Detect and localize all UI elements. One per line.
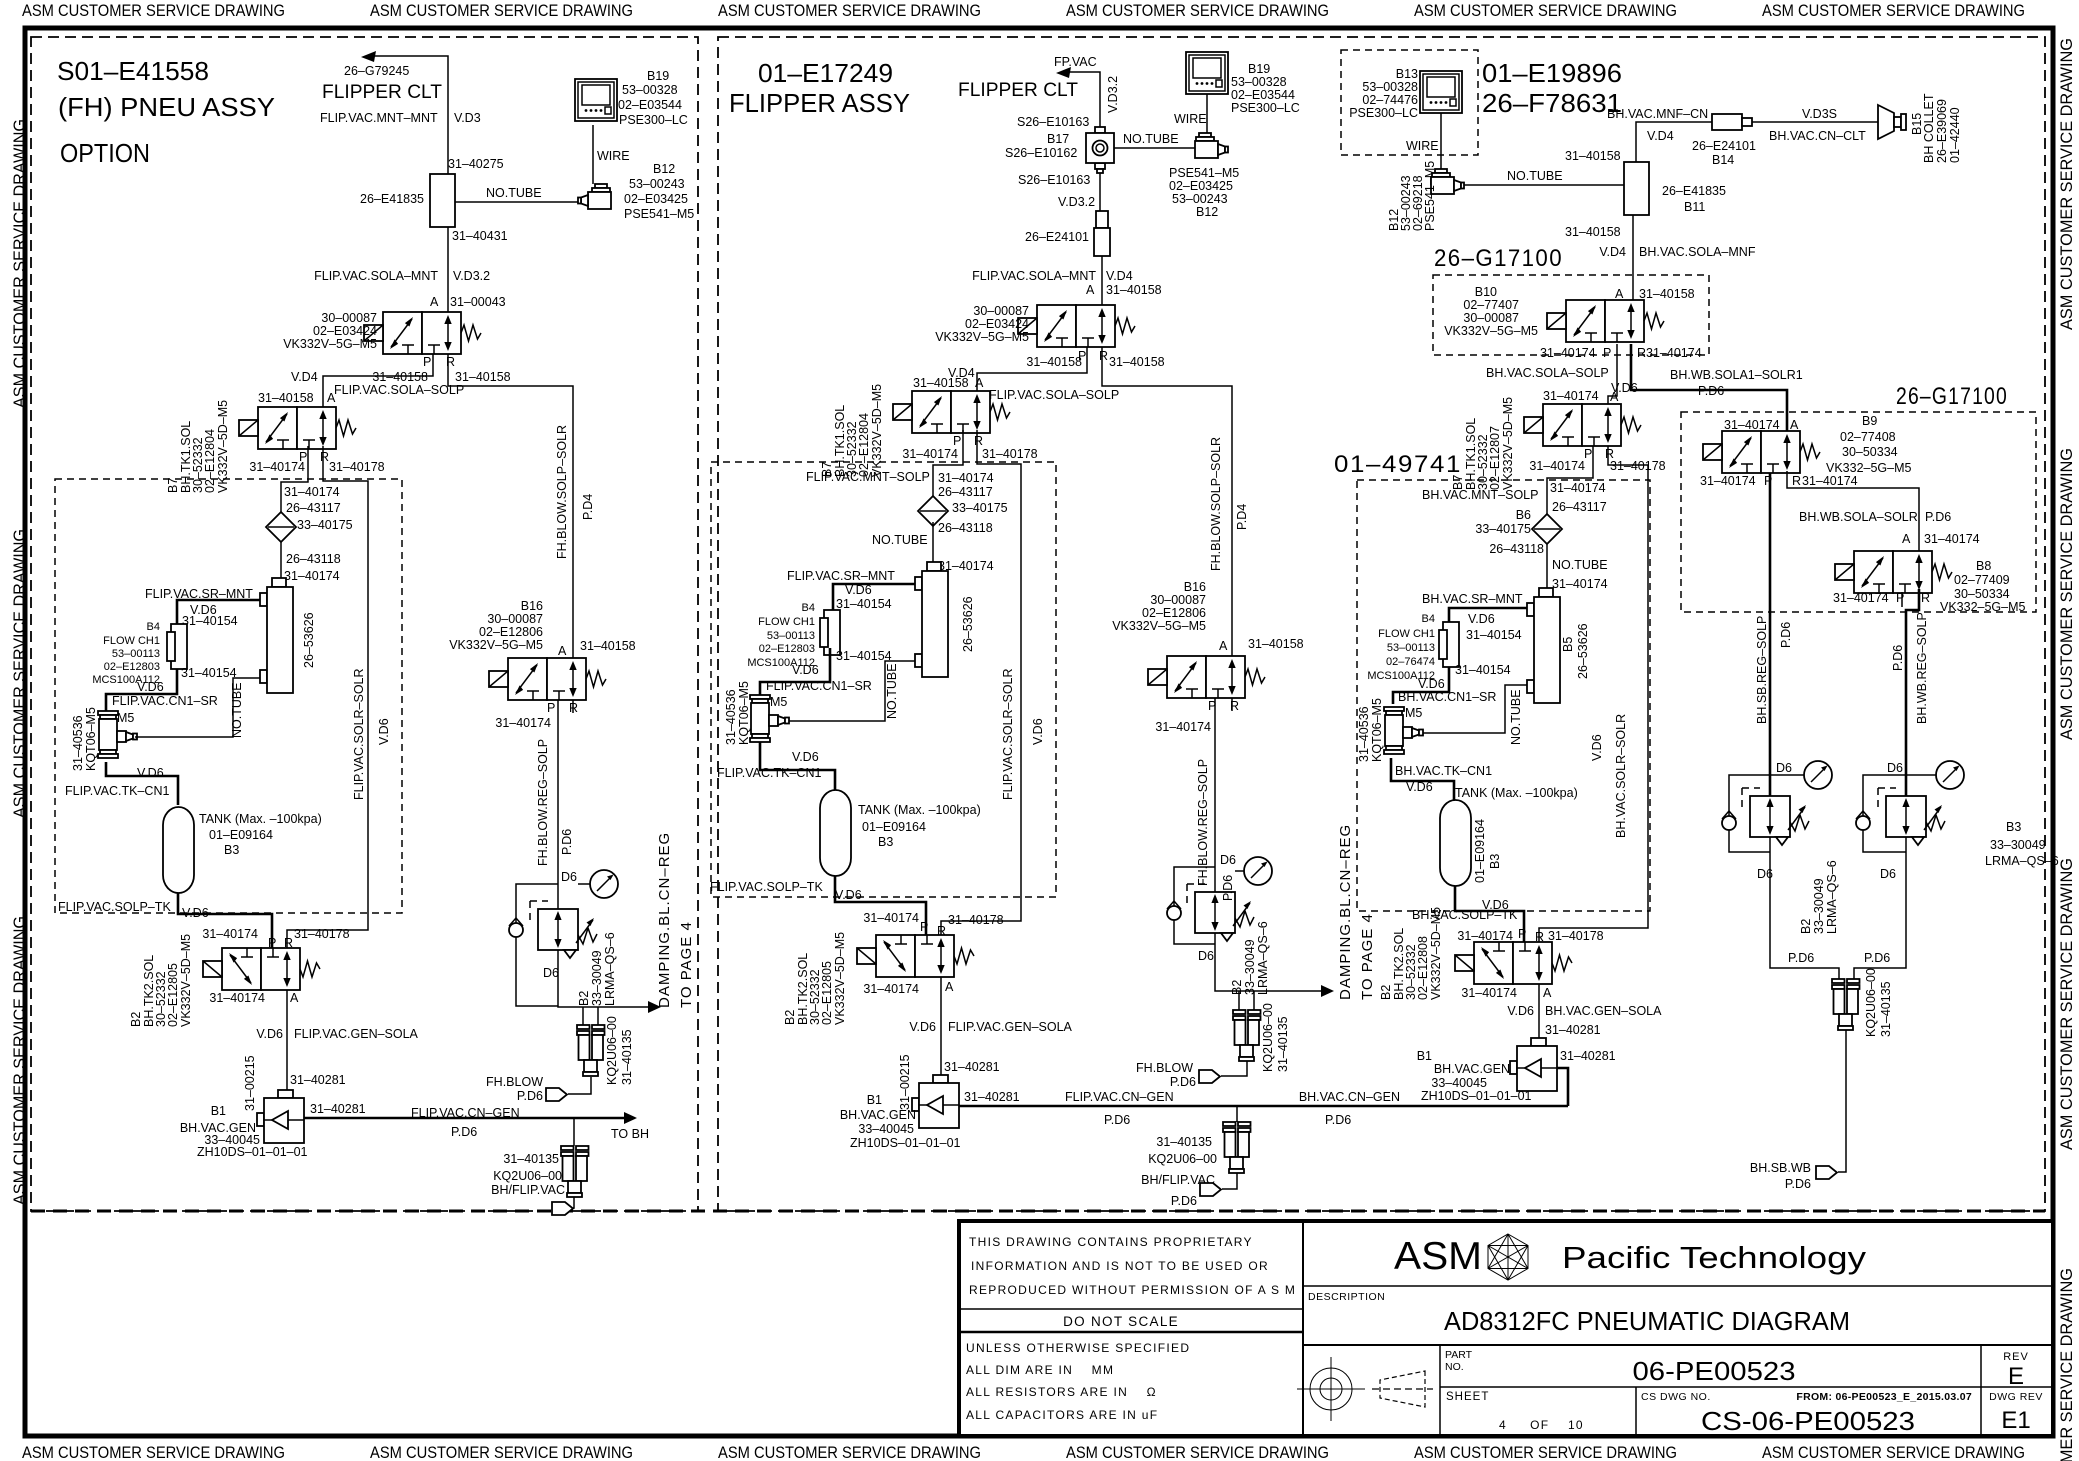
svg-text:01–E19896: 01–E19896 <box>1482 58 1622 88</box>
svg-text:V.D3S: V.D3S <box>1802 107 1837 121</box>
svg-text:V.D6: V.D6 <box>1418 677 1445 691</box>
svg-text:53–00243: 53–00243 <box>629 177 685 191</box>
svg-text:31–40158: 31–40158 <box>372 370 428 384</box>
tank B3 01-E09164 <box>820 790 851 876</box>
fitting PSE541-M5 <box>1195 133 1228 158</box>
svg-text:PSE541–M5: PSE541–M5 <box>1169 166 1239 180</box>
valve B16 30-00087 <box>489 658 606 700</box>
svg-text:P.D6: P.D6 <box>1864 951 1890 965</box>
wire B7 P to filter B6 <box>1547 446 1593 514</box>
connector flag FH.BLOW P.D6 <box>1199 1070 1220 1083</box>
svg-text:A: A <box>558 644 567 658</box>
wire regulators to fitting <box>1770 837 1839 979</box>
svg-text:CS-06-PE00523: CS-06-PE00523 <box>1701 1406 1915 1436</box>
valve B2 BH.TK2.SOL (flipped) <box>203 948 320 990</box>
svg-text:A: A <box>1086 283 1095 297</box>
svg-text:31–40154: 31–40154 <box>1466 628 1522 642</box>
svg-text:R: R <box>1230 699 1239 713</box>
svg-text:31–40536: 31–40536 <box>724 689 738 745</box>
svg-text:V.D6: V.D6 <box>835 888 862 902</box>
svg-text:TANK (Max. –100kpa): TANK (Max. –100kpa) <box>858 803 981 817</box>
dashed section box right <box>718 37 2045 1211</box>
svg-text:33–40175: 33–40175 <box>1475 522 1531 536</box>
wire manifold top to B14 <box>1636 122 1712 162</box>
svg-text:BH.VAC.GEN: BH.VAC.GEN <box>840 1108 916 1122</box>
svg-text:31–40158: 31–40158 <box>1026 355 1082 369</box>
svg-text:B16: B16 <box>1184 580 1206 594</box>
check valve <box>1167 901 1181 920</box>
svg-text:S01–E41558: S01–E41558 <box>57 56 209 86</box>
svg-text:P.D6: P.D6 <box>451 1125 477 1139</box>
wire KQT nozzle to SR lower port NO.TUBE <box>135 678 260 737</box>
svg-text:BH.VAC.SR–MNT: BH.VAC.SR–MNT <box>1422 592 1523 606</box>
svg-text:31–40174: 31–40174 <box>902 447 958 461</box>
svg-text:NO.TUBE: NO.TUBE <box>1552 558 1608 572</box>
svg-text:P.D6: P.D6 <box>1779 622 1793 648</box>
svg-text:30–50334: 30–50334 <box>1842 445 1898 459</box>
svg-text:A: A <box>1610 390 1619 404</box>
svg-text:WIRE: WIRE <box>597 149 630 163</box>
svg-text:FLIPPER ASSY: FLIPPER ASSY <box>729 88 910 118</box>
svg-text:V.D6: V.D6 <box>377 718 391 745</box>
svg-text:V.D3.2: V.D3.2 <box>1106 76 1120 113</box>
svg-text:FLIP.VAC.SOLP–TK: FLIP.VAC.SOLP–TK <box>58 900 171 914</box>
svg-text:V.D4: V.D4 <box>291 370 318 384</box>
svg-text:31–40178: 31–40178 <box>1548 929 1604 943</box>
svg-text:31–40178: 31–40178 <box>329 460 385 474</box>
wire B4 to KQT06 <box>760 648 830 695</box>
title block frame <box>959 1221 2053 1436</box>
svg-text:02–E12803: 02–E12803 <box>759 643 815 655</box>
wire KQT nozzle to SR lower port NO.TUBE <box>789 661 915 721</box>
dashed box B13 <box>1341 50 1478 155</box>
svg-text:BH.SB.REG–SOLP: BH.SB.REG–SOLP <box>1755 616 1769 724</box>
svg-text:P.D6: P.D6 <box>1325 1113 1351 1127</box>
wire fitting to flag <box>1222 1173 1237 1189</box>
svg-text:NO.TUBE: NO.TUBE <box>1509 689 1523 745</box>
svg-text:53–00328: 53–00328 <box>1231 75 1287 89</box>
svg-text:01–42440: 01–42440 <box>1948 107 1962 163</box>
svg-text:V.D4: V.D4 <box>1106 269 1133 283</box>
svg-text:BH.VAC.TK–CN1: BH.VAC.TK–CN1 <box>1395 764 1492 778</box>
svg-text:53–00243: 53–00243 <box>1172 192 1228 206</box>
wire B2 A to B1 <box>1538 984 1540 1038</box>
svg-text:FLIP.VAC.SOLR–SOLR: FLIP.VAC.SOLR–SOLR <box>352 668 366 800</box>
svg-text:31–40135: 31–40135 <box>1276 1016 1290 1072</box>
svg-text:R: R <box>1921 591 1930 605</box>
svg-text:ASM CUSTOMER SERVICE DRAWING: ASM CUSTOMER SERVICE DRAWING <box>2057 858 2076 1150</box>
valve 30-00087 VK332V-5G-M5 <box>1018 305 1135 347</box>
svg-text:V.D6: V.D6 <box>1406 780 1433 794</box>
svg-text:ASM CUSTOMER SERVICE DRAWING: ASM CUSTOMER SERVICE DRAWING <box>2057 1268 2076 1461</box>
wire fitting to FH.BLOW flag <box>1221 1061 1247 1076</box>
wire filter to SR <box>280 542 282 578</box>
svg-text:31–40178: 31–40178 <box>1610 459 1666 473</box>
svg-text:01–E09164: 01–E09164 <box>209 828 273 842</box>
svg-text:FROM: 06-PE00523_E_2015.03.07: FROM: 06-PE00523_E_2015.03.07 <box>1796 1391 1972 1403</box>
svg-text:NO.TUBE: NO.TUBE <box>872 533 928 547</box>
svg-text:THIS DRAWING CONTAINS PROPRIET: THIS DRAWING CONTAINS PROPRIETARY <box>969 1235 1253 1249</box>
svg-text:D6: D6 <box>1880 867 1896 881</box>
svg-text:BH.VAC.SOLP–TK: BH.VAC.SOLP–TK <box>1412 908 1518 922</box>
svg-text:ASM CUSTOMER SERVICE DRAWING: ASM CUSTOMER SERVICE DRAWING <box>718 1 981 20</box>
wire B19 to PSE541 <box>1206 94 1208 133</box>
wire B7 R to SOLR run down to B2 R <box>941 430 1021 935</box>
svg-text:FLIP.VAC.SOLA–MNT: FLIP.VAC.SOLA–MNT <box>314 269 438 283</box>
svg-text:31–40158: 31–40158 <box>1106 283 1162 297</box>
valve B2 BH.TK2.SOL (flipped) <box>1455 942 1572 984</box>
svg-text:01–E09164: 01–E09164 <box>1473 819 1487 883</box>
wire B19 to B12 <box>592 125 594 184</box>
svg-text:26–53626: 26–53626 <box>302 612 316 668</box>
svg-text:B12: B12 <box>1196 205 1218 219</box>
wire B10 P to B7 A <box>1608 344 1617 404</box>
svg-text:P.D6: P.D6 <box>1221 875 1235 901</box>
svg-text:V.D6: V.D6 <box>792 750 819 764</box>
tank B3 01-E09164 <box>1440 800 1471 886</box>
svg-text:FLIP.VAC.TK–CN1: FLIP.VAC.TK–CN1 <box>65 784 169 798</box>
wire B10 R to BH.WB run to B9 A <box>1631 344 1787 431</box>
svg-text:V.D6: V.D6 <box>137 680 164 694</box>
manifold 26-E41835 B11 <box>1624 162 1649 215</box>
svg-text:NO.TUBE: NO.TUBE <box>1507 169 1563 183</box>
svg-text:TANK (Max. –100kpa): TANK (Max. –100kpa) <box>199 812 322 826</box>
flow ctrl B4 MCS100A112 <box>167 624 187 669</box>
svg-text:31–40174: 31–40174 <box>1924 532 1980 546</box>
svg-text:31–40174: 31–40174 <box>284 485 340 499</box>
valve B9 <box>1703 431 1820 473</box>
wire fitting to BH.SB.WB flag <box>1838 1030 1846 1172</box>
svg-text:REV: REV <box>2003 1351 2029 1363</box>
dashed section box left <box>31 37 698 1211</box>
svg-text:26–G17100: 26–G17100 <box>1434 245 1563 272</box>
svg-text:01–E17249: 01–E17249 <box>758 58 893 88</box>
svg-text:FLIP.VAC.CN–GEN: FLIP.VAC.CN–GEN <box>411 1106 520 1120</box>
svg-text:A: A <box>327 391 336 405</box>
svg-text:01–E09164: 01–E09164 <box>862 820 926 834</box>
svg-text:FLIP.VAC.MNT–MNT: FLIP.VAC.MNT–MNT <box>320 111 438 125</box>
wire to fitting <box>1440 113 1442 169</box>
svg-text:VK332V–5D–M5: VK332V–5D–M5 <box>1429 907 1443 1000</box>
svg-text:31–40154: 31–40154 <box>836 597 892 611</box>
svg-text:31–40178: 31–40178 <box>948 913 1004 927</box>
svg-text:06-PE00523: 06-PE00523 <box>1633 1356 1796 1386</box>
svg-text:FLIP.VAC.MNT–SOLP: FLIP.VAC.MNT–SOLP <box>806 470 930 484</box>
filter B6 <box>1532 514 1562 544</box>
svg-text:B2: B2 <box>1230 980 1244 995</box>
svg-text:31–40281: 31–40281 <box>964 1090 1020 1104</box>
svg-text:A: A <box>945 980 954 994</box>
svg-text:B14: B14 <box>1712 153 1734 167</box>
svg-text:FP.VAC: FP.VAC <box>1054 55 1097 69</box>
svg-text:30–00087: 30–00087 <box>973 304 1029 318</box>
wire B4 to KQT06 <box>106 669 177 711</box>
svg-text:02–E12804: 02–E12804 <box>857 413 871 477</box>
svg-text:D6: D6 <box>561 870 577 884</box>
svg-text:NO.TUBE: NO.TUBE <box>486 186 542 200</box>
svg-text:FLIP.VAC.GEN–SOLA: FLIP.VAC.GEN–SOLA <box>948 1020 1073 1034</box>
svg-text:V.D6: V.D6 <box>1031 718 1045 745</box>
svg-text:TO BH: TO BH <box>611 1127 649 1141</box>
svg-text:BH.VAC.GEN–SOLA: BH.VAC.GEN–SOLA <box>1545 1004 1662 1018</box>
valve B16 30-00087 <box>1148 656 1265 698</box>
svg-text:ALL RESISTORS ARE IN Ω: ALL RESISTORS ARE IN Ω <box>966 1385 1157 1399</box>
svg-text:V.D6: V.D6 <box>909 1020 936 1034</box>
svg-text:OPTION: OPTION <box>60 138 150 168</box>
svg-text:02–E03425: 02–E03425 <box>624 192 688 206</box>
svg-text:DESCRIPTION: DESCRIPTION <box>1308 1291 1385 1303</box>
svg-text:31–40174: 31–40174 <box>495 716 551 730</box>
svg-text:REPRODUCED WITHOUT PERMISSION: REPRODUCED WITHOUT PERMISSION OF A S M <box>969 1283 1296 1297</box>
svg-text:PART: PART <box>1445 1349 1473 1361</box>
svg-text:LRMA–QS–6: LRMA–QS–6 <box>1985 854 2059 868</box>
sensor B19 PSE300-LC <box>1186 52 1228 94</box>
svg-text:BH.WB.SOLA1–SOLR1: BH.WB.SOLA1–SOLR1 <box>1670 368 1803 382</box>
svg-text:PSE541–M5: PSE541–M5 <box>624 207 694 221</box>
svg-text:R: R <box>1792 474 1801 488</box>
svg-text:BH.VAC.CN1–SR: BH.VAC.CN1–SR <box>1398 690 1496 704</box>
inline fitting B14 26-E24101 <box>1712 114 1752 130</box>
svg-text:SHEET: SHEET <box>1446 1391 1489 1403</box>
connector flag BH.SB.WB P.D6 <box>1816 1166 1837 1179</box>
svg-text:PSE300–LC: PSE300–LC <box>619 113 688 127</box>
connector flag FH.BLOW P.D6 <box>546 1088 567 1101</box>
svg-text:26–E39069: 26–E39069 <box>1935 99 1949 163</box>
svg-text:A: A <box>1219 639 1228 653</box>
svg-text:BH.VAC.MNT–SOLP: BH.VAC.MNT–SOLP <box>1422 488 1538 502</box>
wire tank to B2 P <box>178 893 272 948</box>
svg-text:31–00215: 31–00215 <box>243 1055 257 1111</box>
svg-text:VK332V–5G–M5: VK332V–5G–M5 <box>1112 619 1206 633</box>
gauge <box>1244 857 1272 885</box>
svg-text:BH.VAC.GEN: BH.VAC.GEN <box>1434 1062 1510 1076</box>
svg-text:31–40178: 31–40178 <box>294 927 350 941</box>
valve B10 <box>1547 300 1664 342</box>
svg-text:BH.SB.WB: BH.SB.WB <box>1750 1161 1811 1175</box>
svg-text:FLIP.VAC.SR–MNT: FLIP.VAC.SR–MNT <box>787 569 895 583</box>
svg-text:VK332V–5G–M5: VK332V–5G–M5 <box>935 330 1029 344</box>
svg-text:31–40135: 31–40135 <box>620 1029 634 1085</box>
svg-text:B8: B8 <box>1976 559 1991 573</box>
svg-text:31–40158: 31–40158 <box>258 391 314 405</box>
bypass loop <box>1174 867 1215 906</box>
svg-text:P: P <box>1603 346 1611 360</box>
regulator R1 B2 LRMA-QS-6 <box>1750 796 1809 845</box>
svg-text:31–40536: 31–40536 <box>71 715 85 771</box>
svg-text:M5: M5 <box>770 695 787 709</box>
svg-text:FLOW CH1: FLOW CH1 <box>103 635 160 647</box>
valve B7 BH.TK1.SOL <box>1524 404 1641 446</box>
wire SR port to B4 <box>833 584 915 610</box>
flow ctrl B4 <box>1439 622 1459 667</box>
svg-text:26–E24101: 26–E24101 <box>1025 230 1089 244</box>
flow ctrl B4 MCS100A112 <box>820 610 840 655</box>
svg-text:B4: B4 <box>147 621 160 633</box>
svg-text:FH.BLOW: FH.BLOW <box>1136 1061 1193 1075</box>
breather B17 <box>1086 127 1114 173</box>
svg-text:B17: B17 <box>1047 132 1069 146</box>
svg-text:ASM CUSTOMER SERVICE DRAWING: ASM CUSTOMER SERVICE DRAWING <box>2057 448 2076 740</box>
svg-text:FLIP.VAC.TK–CN1: FLIP.VAC.TK–CN1 <box>717 766 821 780</box>
svg-text:FLIP.VAC.SOLA–MNT: FLIP.VAC.SOLA–MNT <box>972 269 1096 283</box>
svg-text:31–40536: 31–40536 <box>1357 706 1371 762</box>
svg-text:B16: B16 <box>521 599 543 613</box>
svg-text:LRMA–QS–6: LRMA–QS–6 <box>1256 921 1270 995</box>
generator B1 BH.VAC.GEN <box>257 1090 304 1143</box>
svg-text:FLIP.VAC.SOLP–TK: FLIP.VAC.SOLP–TK <box>710 880 823 894</box>
valve B7 BH.TK1.SOL <box>239 407 356 449</box>
sensor B19 PSE300-LC <box>575 79 617 121</box>
svg-text:31–40275: 31–40275 <box>448 157 504 171</box>
svg-text:P.D6: P.D6 <box>1788 951 1814 965</box>
generator B1 BH.VAC.GEN <box>1510 1038 1557 1091</box>
svg-text:ASM CUSTOMER SERVICE DRAWING: ASM CUSTOMER SERVICE DRAWING <box>2057 38 2076 330</box>
svg-text:31–40135: 31–40135 <box>503 1152 559 1166</box>
svg-text:D6: D6 <box>1220 853 1236 867</box>
svg-text:V.D4: V.D4 <box>1647 129 1674 143</box>
svg-text:BH.VAC.SOLA–SOLP: BH.VAC.SOLA–SOLP <box>1486 366 1609 380</box>
svg-text:ASM CUSTOMER SERVICE DRAWING: ASM CUSTOMER SERVICE DRAWING <box>1066 1 1329 20</box>
svg-text:D6: D6 <box>1776 761 1792 775</box>
wire B1 right joins long run <box>1557 1068 1568 1106</box>
wire valve P to B7 A <box>977 347 1087 391</box>
svg-text:31–40281: 31–40281 <box>1560 1049 1616 1063</box>
wire valve R to SOLP-SOLR run <box>1102 347 1232 656</box>
svg-text:31–40174: 31–40174 <box>1700 474 1756 488</box>
valve 30-00087 VK332V-5G-M5 <box>364 312 481 354</box>
svg-text:KQT06–M5: KQT06–M5 <box>84 707 98 771</box>
svg-text:ASM CUSTOMER SERVICE DRAWING: ASM CUSTOMER SERVICE DRAWING <box>1762 1443 2025 1461</box>
svg-text:FLIPPER CLT: FLIPPER CLT <box>322 82 442 103</box>
svg-text:P.D6: P.D6 <box>1785 1177 1811 1191</box>
svg-text:ZH10DS–01–01–01: ZH10DS–01–01–01 <box>850 1136 961 1150</box>
svg-text:ASM CUSTOMER SERVICE DRAWING: ASM CUSTOMER SERVICE DRAWING <box>22 1 285 20</box>
speed block 26-53626 <box>915 562 948 677</box>
fitting KQ2U06 <box>1832 979 1860 1030</box>
svg-text:P.D6: P.D6 <box>1170 1075 1196 1089</box>
svg-text:P: P <box>423 355 431 369</box>
svg-text:02–E03424: 02–E03424 <box>965 317 1029 331</box>
svg-text:DO NOT SCALE: DO NOT SCALE <box>1063 1314 1179 1329</box>
wire B4 to KQT <box>1393 667 1449 704</box>
svg-text:FLIPPER CLT: FLIPPER CLT <box>958 80 1078 101</box>
svg-text:26–G79245: 26–G79245 <box>344 64 409 78</box>
svg-text:31–40154: 31–40154 <box>836 649 892 663</box>
svg-text:31–40174: 31–40174 <box>1155 720 1211 734</box>
wire B17 to E24101 <box>1099 173 1101 211</box>
svg-text:31–40174: 31–40174 <box>1457 929 1513 943</box>
svg-text:P.D4: P.D4 <box>1235 504 1249 530</box>
svg-text:B11: B11 <box>1684 200 1705 214</box>
fitting KQ2U06 31-40135 <box>1223 1122 1251 1173</box>
svg-text:31–40158: 31–40158 <box>1248 637 1304 651</box>
dashed box B10 <box>1433 275 1709 355</box>
svg-text:ZH10DS–01–01–01: ZH10DS–01–01–01 <box>1421 1089 1532 1103</box>
svg-text:ALL DIM ARE IN MM: ALL DIM ARE IN MM <box>966 1363 1114 1377</box>
fitting KQ2U06 31-40135 upper <box>1233 1010 1261 1061</box>
svg-text:31–40174: 31–40174 <box>938 471 994 485</box>
svg-text:BH COLLET: BH COLLET <box>1922 93 1936 163</box>
svg-text:02–77407: 02–77407 <box>1463 298 1519 312</box>
inner dashed box <box>55 479 402 913</box>
svg-text:B19: B19 <box>1248 62 1270 76</box>
svg-text:30–00087: 30–00087 <box>487 612 543 626</box>
svg-text:CS DWG NO.: CS DWG NO. <box>1641 1391 1711 1403</box>
regulator B2 LRMA-QS-6 <box>1195 892 1254 941</box>
svg-text:31–40174: 31–40174 <box>1550 481 1606 495</box>
svg-text:53–00113: 53–00113 <box>112 648 160 660</box>
svg-text:ALL CAPACITORS ARE IN uF: ALL CAPACITORS ARE IN uF <box>966 1408 1158 1422</box>
svg-text:02–E12808: 02–E12808 <box>1416 936 1430 1000</box>
svg-text:NO.TUBE: NO.TUBE <box>1123 132 1179 146</box>
svg-text:B3: B3 <box>224 843 239 857</box>
svg-text:31–40174: 31–40174 <box>1802 474 1858 488</box>
svg-text:FLIP.VAC.CN1–SR: FLIP.VAC.CN1–SR <box>112 694 218 708</box>
svg-text:V.D6: V.D6 <box>1468 612 1495 626</box>
svg-text:P.D6: P.D6 <box>560 829 574 855</box>
svg-text:31–40174: 31–40174 <box>1540 346 1596 360</box>
wire manifold to B10 A <box>1632 215 1634 300</box>
svg-text:01–49741: 01–49741 <box>1334 451 1462 478</box>
svg-text:33–40045: 33–40045 <box>858 1122 914 1136</box>
svg-text:M5: M5 <box>117 711 134 725</box>
svg-text:31–40174: 31–40174 <box>1552 577 1608 591</box>
svg-text:26–53626: 26–53626 <box>961 596 975 652</box>
svg-text:31–40178: 31–40178 <box>982 447 1038 461</box>
svg-text:ASM CUSTOMER SERVICE DRAWING: ASM CUSTOMER SERVICE DRAWING <box>718 1443 981 1461</box>
svg-text:A: A <box>290 991 299 1005</box>
svg-text:ASM: ASM <box>1394 1235 1482 1278</box>
svg-text:33–40175: 33–40175 <box>297 518 353 532</box>
svg-text:31–40174: 31–40174 <box>284 569 340 583</box>
svg-text:31–40174: 31–40174 <box>1543 389 1599 403</box>
svg-text:02–E12804: 02–E12804 <box>203 429 217 493</box>
wire SR port to B4 <box>177 600 260 624</box>
svg-text:PSE300–LC: PSE300–LC <box>1349 106 1418 120</box>
svg-text:KQ2U06–00: KQ2U06–00 <box>1261 1003 1275 1072</box>
svg-text:B2: B2 <box>1799 919 1813 934</box>
svg-text:TO PAGE 4: TO PAGE 4 <box>1359 913 1376 1000</box>
svg-text:M5: M5 <box>1405 706 1422 720</box>
wire B7 R to SOLR run down to B2 R <box>287 446 368 948</box>
svg-text:FLIP.VAC.SOLA–SOLP: FLIP.VAC.SOLA–SOLP <box>334 383 464 397</box>
svg-text:ASM CUSTOMER SERVICE DRAWING: ASM CUSTOMER SERVICE DRAWING <box>370 1443 633 1461</box>
wire NO.TUBE B17 to PSE541 <box>1114 147 1195 149</box>
wire valve P to B7 A <box>323 354 433 407</box>
svg-text:B19: B19 <box>647 69 669 83</box>
svg-text:02–76474: 02–76474 <box>1386 656 1435 668</box>
speed block B5 26-53626 <box>1527 588 1560 703</box>
svg-text:4 OF 10: 4 OF 10 <box>1499 1418 1584 1432</box>
watermark row bottom <box>22 1443 2025 1461</box>
projection symbol <box>1297 1357 1365 1421</box>
svg-text:02–E12803: 02–E12803 <box>104 661 160 673</box>
svg-text:P.D6: P.D6 <box>1925 510 1951 524</box>
svg-text:B1: B1 <box>1417 1049 1432 1063</box>
svg-text:31–40154: 31–40154 <box>181 666 237 680</box>
svg-text:UNLESS OTHERWISE SPECIFIED: UNLESS OTHERWISE SPECIFIED <box>966 1341 1190 1355</box>
svg-text:B5: B5 <box>1561 637 1575 652</box>
svg-text:VK332–5G–M5: VK332–5G–M5 <box>1940 600 2026 614</box>
svg-text:ASM CUSTOMER SERVICE DRAWING: ASM CUSTOMER SERVICE DRAWING <box>370 1 633 20</box>
svg-text:31–40158: 31–40158 <box>1565 225 1621 239</box>
watermark column left <box>10 119 29 1205</box>
svg-text:AD8312FC PNEUMATIC DIAGRAM: AD8312FC PNEUMATIC DIAGRAM <box>1444 1306 1850 1336</box>
svg-text:FLIP.VAC.CN1–SR: FLIP.VAC.CN1–SR <box>766 679 872 693</box>
svg-text:FLIP.VAC.SOLR–SOLR: FLIP.VAC.SOLR–SOLR <box>1001 668 1015 800</box>
svg-text:02–E03424: 02–E03424 <box>313 324 377 338</box>
svg-text:26–F78631: 26–F78631 <box>1482 88 1622 118</box>
